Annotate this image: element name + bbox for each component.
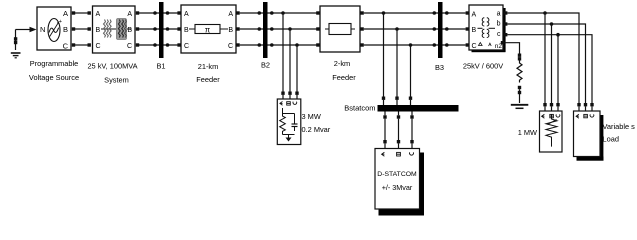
load LD1 (3 MW 0.2 Mvar) [277,99,301,145]
label: Programmable Voltage Source [29,59,79,82]
D-STATCOM U5 block [375,149,420,210]
port squares D-STATCOM pins [383,140,413,143]
svg-text:C: C [228,43,233,50]
svg-text:B: B [63,25,68,34]
label: 25 kV, 100MVA System [87,62,137,85]
svg-text:B: B [472,27,477,34]
wire row A feeder2->B3 [364,12,438,14]
svg-text:2-km: 2-km [334,59,350,68]
svg-text:π: π [205,26,211,35]
wire tap a down to 1MW load [544,13,546,103]
svg-text:A: A [96,11,101,18]
svg-text:+: + [59,19,62,25]
svg-text:Load: Load [603,135,619,144]
port squares above Bstatcom [382,97,412,100]
svg-text:A: A [472,12,477,19]
stubs from Bstatcom bar down [385,112,412,116]
bus B1 [159,2,164,58]
svg-text:a: a [497,11,501,18]
wire ground to source N port with arrowhead [16,27,37,33]
port squares feeder1 inputs [177,11,180,46]
bus Bstatcom [378,105,459,112]
svg-text:C: C [127,43,132,50]
junction dots right of B3 [445,11,449,47]
voltage source U1 (Programmable Voltage Source) [37,7,71,51]
junction dots taps to 1MW load [543,11,560,36]
svg-text:21-km: 21-km [198,62,219,71]
svg-text:A: A [63,9,68,18]
wire to ground G2 [519,89,521,103]
svg-text:0.2 Mvar: 0.2 Mvar [302,125,331,134]
wire row B B1->feeder1 [164,28,182,30]
svg-text:A: A [127,11,132,18]
port squares system outputs [136,11,139,46]
wire row C B3->transformer [443,44,466,46]
label: Variable Load [603,122,636,144]
svg-text:System: System [104,76,129,85]
svg-text:A: A [184,11,189,18]
wire row A B2->feeder2 [268,12,318,14]
junction dots left of B3 [433,11,437,47]
svg-text:B: B [184,27,189,34]
wire row A B1->feeder1 [164,12,182,14]
label: 3 MW / 0.2 Mvar [302,112,331,134]
svg-text:Feeder: Feeder [196,75,220,84]
wire row A feeder1->B2 [240,12,263,14]
svg-text:Bstatcom: Bstatcom [344,104,375,113]
wire tap C down to load1 [296,45,298,92]
wire tap B down to Bstatcom [396,29,398,97]
svg-text:c: c [497,31,501,38]
svg-text:B: B [96,27,101,34]
svg-text:Programmable: Programmable [30,59,78,68]
wire tap b down to 1MW load [551,24,553,103]
bus B3 [438,2,443,58]
variable load LD3 shadow [577,115,604,161]
wire row B B2->feeder2 [268,28,318,30]
wire tap B down to load1 [289,29,291,92]
port squares transformer outputs a b c n2 [501,11,508,44]
svg-text:25kV / 600V: 25kV / 600V [463,62,503,71]
wire row b [507,24,585,103]
label: 21-km Feeder [196,62,220,84]
ground G1 [11,30,21,58]
feeder block U3 (21-km Feeder) [181,5,236,53]
svg-text:B: B [127,27,132,34]
port squares feeder2 inputs [316,11,319,46]
svg-text:B1: B1 [156,62,165,71]
wire down to D-STATCOM pin B [398,119,400,140]
svg-text:C: C [63,42,69,51]
wire row B feeder1->B2 [240,28,263,30]
wire tap A down to Bstatcom [383,13,385,97]
svg-text:B3: B3 [435,63,444,72]
wire row C feeder2->B3 [364,44,438,46]
junction dots right of B2 [270,11,274,47]
svg-text:A: A [228,11,233,18]
wire row C feeder1->B2 [240,44,263,46]
transformer T1 shadow [472,8,506,52]
port squares feeder1 outputs [236,11,239,46]
wire row C B2->feeder2 [268,44,318,46]
pin stubs variable load [579,106,592,111]
wire row A source->system [75,12,88,14]
svg-text:Variable s: Variable s [603,122,636,131]
port squares feeder2 outputs [360,11,363,46]
stubs into Bstatcom bar [384,100,411,105]
variable load LD3 block [574,111,601,157]
wire row B B3->transformer [443,28,466,30]
wire row C B1->feeder1 [164,44,182,46]
svg-text:N: N [40,25,45,34]
svg-text:B: B [228,27,233,34]
wire tap c down to 1MW load [557,35,559,103]
wire tap C down to Bstatcom [410,45,412,97]
svg-text:b: b [497,21,501,28]
junction dots taps to Bstatcom [382,11,413,47]
wire row c [507,35,592,103]
wire down to D-STATCOM pin C [411,119,413,140]
wire row C source->system [75,44,88,46]
port squares system inputs [88,11,91,46]
load LD2 (1 MW) [540,111,563,152]
wire row A system->B1 [139,12,159,14]
resistor R1 ports (bottom) [518,86,521,94]
svg-text:B2: B2 [261,61,270,70]
wire row B system->B1 [139,28,159,30]
svg-text:3 MW: 3 MW [302,112,321,121]
port squares load1 pins [281,92,298,95]
ground G2 [511,105,529,109]
wire row C system->B1 [139,44,159,46]
pin stubs load1 [283,95,297,99]
D-STATCOM U5 shadow [379,153,425,216]
transformer T1 (25kV / 600V) [469,5,503,50]
wire down to D-STATCOM pin A [384,119,386,140]
port squares below Bstatcom [383,115,413,118]
svg-text:D-STATCOM: D-STATCOM [377,171,417,178]
wire row a to variable load column [507,13,579,103]
junction dots left of B1 [153,11,157,47]
port squares variable load pins [577,103,593,106]
wire row A B3->transformer [443,12,466,14]
port squares source outputs [72,11,75,46]
resistor R1 ports (top) [518,54,521,61]
svg-text:25 kV, 100MVA: 25 kV, 100MVA [87,62,137,71]
wire n2 to grounding resistor [504,43,519,54]
wire row B source->system [75,28,88,30]
junction dots left of B2 [258,11,262,47]
pin stubs 1MW load [545,106,558,111]
source impedance block U2 (25 kV, 100MVA System) [93,6,136,53]
port squares 1MW load pins [543,103,559,106]
pin stubs D-STATCOM [385,143,412,148]
resistor R1 zigzag [517,61,522,83]
junction dots right of B1 [166,11,170,47]
feeder block U4 (2-km Feeder) [320,6,360,52]
wire row B feeder2->B3 [364,28,438,30]
port squares transformer inputs [466,11,469,46]
svg-text:Voltage Source: Voltage Source [29,73,79,82]
wire tap A down to load1 [282,13,284,92]
svg-text:1 MW: 1 MW [518,128,537,137]
bus B2 [263,2,268,58]
svg-text:C: C [96,43,101,50]
label: 2-km Feeder [332,59,356,82]
svg-text:Feeder: Feeder [332,73,356,82]
svg-text:C: C [184,43,189,50]
svg-text:+/- 3Mvar: +/- 3Mvar [382,183,413,192]
svg-text:C: C [472,43,477,50]
junction dots taps to load1 [281,11,299,47]
